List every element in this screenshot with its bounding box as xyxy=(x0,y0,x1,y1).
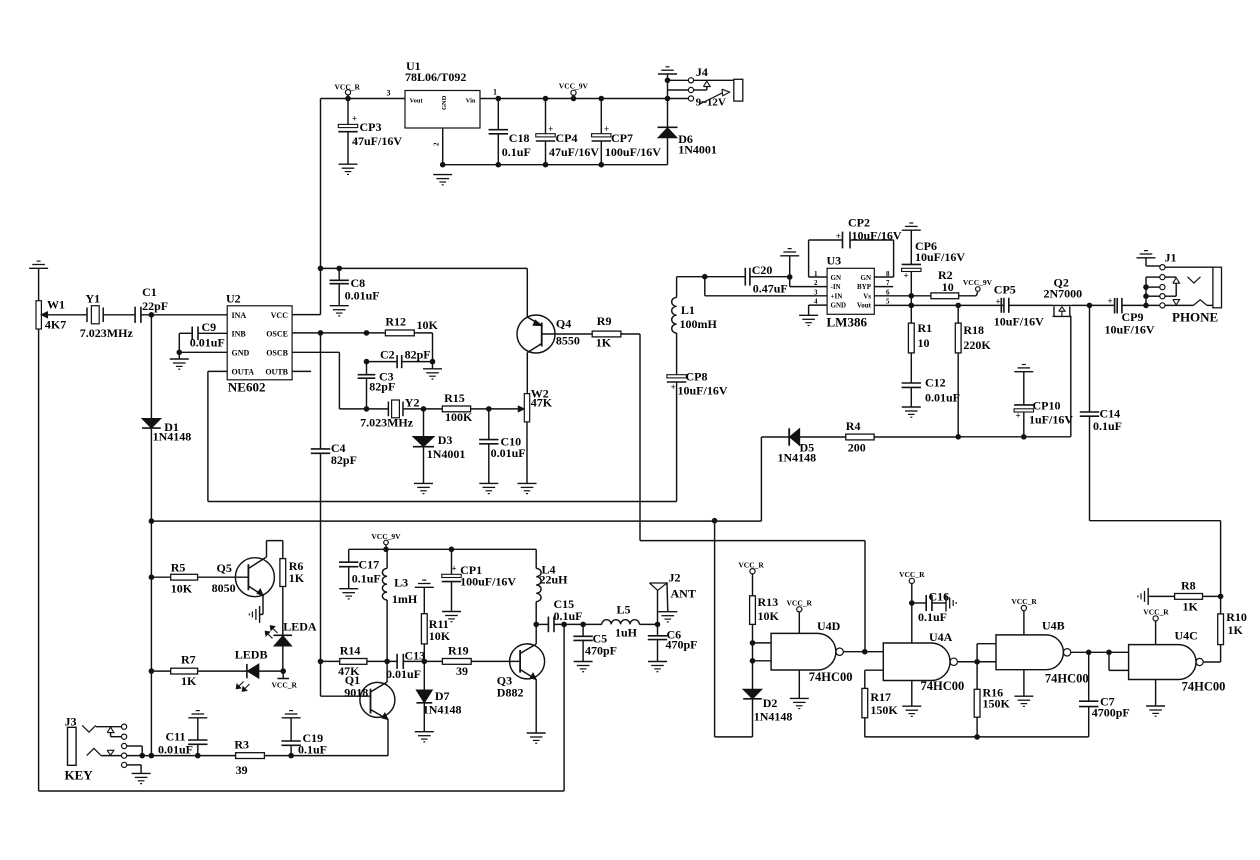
svg-text:1uH: 1uH xyxy=(615,626,638,640)
wire: left bus down to J3 xyxy=(150,521,152,756)
diode D1 1N4148 xyxy=(142,419,161,428)
svg-text:+: + xyxy=(604,124,609,134)
wire: C15 node down to ground rail xyxy=(563,624,565,791)
wire: U2 GND pin xyxy=(179,351,227,353)
capacitor CP4 47uF/16V xyxy=(543,96,549,102)
svg-text:9~12V: 9~12V xyxy=(696,97,726,109)
svg-text:82pF: 82pF xyxy=(405,348,431,362)
svg-text:R10: R10 xyxy=(1226,610,1247,624)
op-amp U2 NE602 mixer box xyxy=(227,306,292,380)
resistor R17 150K xyxy=(862,688,868,717)
svg-text:C12: C12 xyxy=(925,376,946,390)
logic gate U4A 74HC00 xyxy=(883,643,950,681)
svg-text:74HC00: 74HC00 xyxy=(1045,672,1089,686)
svg-text:R8: R8 xyxy=(1181,579,1196,593)
wire: U2 OSCB row to Y2 xyxy=(292,351,339,353)
svg-text:C20: C20 xyxy=(752,263,773,277)
ground for D7 xyxy=(415,731,434,733)
inductor L1 100mH xyxy=(672,297,677,333)
resistor R6 1K xyxy=(282,541,284,559)
svg-text:R14: R14 xyxy=(340,644,361,658)
svg-text:D3: D3 xyxy=(438,433,453,447)
svg-text:OUTA: OUTA xyxy=(232,367,255,376)
capacitor C2 82pF xyxy=(367,361,398,363)
wire: U2 OSCE row xyxy=(292,332,385,334)
ground for J3 xyxy=(132,772,151,774)
svg-text:1: 1 xyxy=(493,88,497,97)
crystal Y2 7.023MHz xyxy=(387,402,389,417)
resistor R4 200 xyxy=(846,434,874,440)
inductor L4 22uH xyxy=(535,549,537,568)
svg-text:150K: 150K xyxy=(983,697,1011,711)
svg-text:0.01uF: 0.01uF xyxy=(190,336,225,350)
svg-text:470pF: 470pF xyxy=(585,644,617,658)
svg-text:D882: D882 xyxy=(497,686,524,700)
wire: OSCE vertical to C4 and TX driver xyxy=(320,333,322,449)
svg-text:0.1uF: 0.1uF xyxy=(502,145,531,159)
svg-text:U4B: U4B xyxy=(1042,619,1065,633)
svg-text:R5: R5 xyxy=(171,561,186,575)
svg-text:L5: L5 xyxy=(617,603,631,617)
capacitor C15 0.1uF xyxy=(536,623,548,625)
svg-text:J4: J4 xyxy=(696,65,708,79)
op-amp U1 78L06/T092 regulator box xyxy=(405,91,480,129)
node: VCC_9V terminal on rail xyxy=(571,90,576,95)
svg-text:0.01uF: 0.01uF xyxy=(158,743,193,757)
svg-text:7.023MHz: 7.023MHz xyxy=(80,326,134,340)
wire: R15 to W2 wiper xyxy=(471,408,519,410)
svg-text:1N4001: 1N4001 xyxy=(427,447,466,461)
diode D7 1N4148 xyxy=(423,661,425,690)
svg-text:CP5: CP5 xyxy=(994,283,1016,297)
resistor R19 39 xyxy=(442,659,471,665)
svg-text:0.01uF: 0.01uF xyxy=(386,667,421,681)
svg-text:4K7: 4K7 xyxy=(45,318,66,332)
wire: vertical D1 branch line xyxy=(150,315,152,419)
svg-text:10uF/16V: 10uF/16V xyxy=(678,384,728,398)
svg-text:L3: L3 xyxy=(394,576,408,590)
svg-text:+: + xyxy=(452,564,457,574)
op-amp U3 LM386 box xyxy=(827,268,874,314)
svg-text:LEDB: LEDB xyxy=(235,648,268,662)
wire: J3 sleeve to ground xyxy=(127,764,141,766)
svg-text:CP8: CP8 xyxy=(686,370,708,384)
svg-text:R1: R1 xyxy=(918,321,933,335)
svg-text:10: 10 xyxy=(942,280,954,294)
wire: U4D output to U4A xyxy=(843,651,883,653)
svg-text:+: + xyxy=(352,114,357,124)
transistor Q4 8550 xyxy=(517,315,555,353)
svg-text:R18: R18 xyxy=(963,323,984,337)
svg-text:U2: U2 xyxy=(226,292,241,306)
svg-text:10uF/16V: 10uF/16V xyxy=(994,315,1044,329)
svg-text:BYP: BYP xyxy=(857,283,872,291)
element: J3 key contact lower xyxy=(87,748,101,755)
capacitor CP2 10uF/16V bypass loop xyxy=(809,276,828,278)
svg-text:10K: 10K xyxy=(429,629,451,643)
wire: U2 OUTA to CP8/L1 xyxy=(208,370,227,372)
svg-text:10K: 10K xyxy=(758,609,780,623)
capacitor C14 0.1uF xyxy=(1089,305,1091,412)
wire: U3 pin6 Vs row with R2 xyxy=(874,295,931,297)
svg-text:CP10: CP10 xyxy=(1033,399,1061,413)
svg-text:U4A: U4A xyxy=(929,630,953,644)
svg-text:U4C: U4C xyxy=(1175,629,1198,643)
svg-text:47uF/16V: 47uF/16V xyxy=(549,145,599,159)
svg-text:Q5: Q5 xyxy=(217,561,232,575)
svg-text:GND: GND xyxy=(831,302,847,310)
svg-text:0.01uF: 0.01uF xyxy=(345,289,380,303)
wire: bottom ground rail of keyer section xyxy=(39,790,565,792)
svg-text:1K: 1K xyxy=(1183,600,1199,614)
svg-text:74HC00: 74HC00 xyxy=(1182,680,1226,694)
ground for U2/C9 xyxy=(178,352,180,359)
wire: mixer output node to R14 xyxy=(318,659,324,665)
ground for U3 xyxy=(799,314,818,316)
svg-text:J3: J3 xyxy=(65,715,77,729)
resistor R15 100K xyxy=(442,406,470,412)
transistor Q5 8050 xyxy=(235,558,274,597)
svg-text:1K: 1K xyxy=(289,571,305,585)
wire: lower power return rail xyxy=(443,164,668,166)
svg-text:+: + xyxy=(904,271,909,281)
ground above U3 -IN xyxy=(780,255,799,257)
svg-text:0.1uF: 0.1uF xyxy=(1093,419,1122,433)
capacitor C4 82pF xyxy=(311,448,330,450)
transistor Q1 9018 xyxy=(360,682,395,717)
capacitor CP9 10uF/16V xyxy=(1114,298,1116,313)
element: J3 tip arrow xyxy=(107,727,114,732)
svg-text:C17: C17 xyxy=(359,558,380,572)
wire: U3 pin4 GND xyxy=(809,304,828,306)
wire: U1 GND pin to ground rail xyxy=(442,128,444,165)
wire: U4C output to R10 xyxy=(1203,661,1220,663)
element: J1 jack body xyxy=(1213,267,1222,308)
svg-text:7.023MHz: 7.023MHz xyxy=(360,416,414,430)
wire: +IN branch to U3 pin3 xyxy=(704,277,706,296)
svg-text:82pF: 82pF xyxy=(331,453,357,467)
svg-text:GND: GND xyxy=(441,95,448,110)
wire: Y2 to R15 xyxy=(403,408,442,410)
svg-text:OSCE: OSCE xyxy=(266,329,288,338)
svg-text:VCC: VCC xyxy=(271,311,289,320)
svg-text:C11: C11 xyxy=(166,730,186,744)
wire: J1 tip contact arrow xyxy=(1165,276,1176,278)
svg-text:1uF/16V: 1uF/16V xyxy=(1029,413,1073,427)
LED LEDA xyxy=(274,634,293,636)
resistor R3 39 xyxy=(236,753,265,759)
svg-text:J1: J1 xyxy=(1165,251,1177,265)
svg-text:0.01uF: 0.01uF xyxy=(491,446,526,460)
logic gate U4C 74HC00 xyxy=(1129,645,1196,680)
svg-text:D7: D7 xyxy=(435,689,450,703)
capacitor C17 0.1uF xyxy=(348,549,350,562)
wire: D5 node down to logic xyxy=(712,518,718,524)
svg-text:VCC_9V: VCC_9V xyxy=(963,278,993,287)
capacitor C19 0.1uF xyxy=(282,717,301,719)
svg-text:10K: 10K xyxy=(417,318,439,332)
wire: U4B output to U4C xyxy=(1071,651,1129,653)
logic gate U4D 74HC00 xyxy=(753,642,772,644)
transistor Q2 2N7000 mosfet xyxy=(1053,304,1071,306)
resistor R9 1K xyxy=(592,331,621,337)
svg-text:R12: R12 xyxy=(385,315,406,329)
svg-text:78L06/T092: 78L06/T092 xyxy=(405,70,466,84)
svg-text:J2: J2 xyxy=(669,571,681,585)
svg-text:LEDA: LEDA xyxy=(283,620,317,634)
svg-text:+: + xyxy=(548,124,553,134)
ground above W1 xyxy=(29,267,48,269)
svg-text:D2: D2 xyxy=(763,696,778,710)
svg-text:R19: R19 xyxy=(448,644,469,658)
svg-text:C9: C9 xyxy=(202,320,217,334)
svg-text:10: 10 xyxy=(918,336,930,350)
svg-text:GN: GN xyxy=(831,274,842,282)
svg-text:KEY: KEY xyxy=(65,768,94,783)
svg-text:+: + xyxy=(1108,296,1113,306)
ground for U4D xyxy=(798,670,800,698)
capacitor C5 470pF xyxy=(580,622,586,628)
svg-text:+: + xyxy=(996,297,1001,307)
wire: U2 VCC pin up to C8 node xyxy=(292,314,320,316)
element: LEDB emission arrows xyxy=(238,682,244,688)
svg-text:U4D: U4D xyxy=(817,619,841,633)
wire: key line to Q1 emitter xyxy=(291,755,388,757)
svg-text:VCC_R: VCC_R xyxy=(335,83,361,92)
ground for U4B xyxy=(1023,670,1025,697)
wire: CP6 stem through Vs row to Vout row xyxy=(910,296,912,306)
inductor L3 1mH xyxy=(386,549,388,568)
svg-text:22pF: 22pF xyxy=(142,299,168,313)
wire: C20 node to U3 pin2 xyxy=(789,277,791,287)
svg-text:1N4148: 1N4148 xyxy=(153,430,192,444)
diode D2 1N4148 xyxy=(743,689,762,698)
element: J3 key contact upper xyxy=(82,725,96,732)
svg-text:2: 2 xyxy=(814,279,818,287)
node: VCC_R bar below LEDs xyxy=(282,671,284,678)
svg-text:VCC_R: VCC_R xyxy=(899,570,925,579)
svg-text:VCC_9V: VCC_9V xyxy=(559,82,589,91)
svg-text:L1: L1 xyxy=(681,303,695,317)
svg-text:2: 2 xyxy=(433,142,441,146)
svg-text:C1: C1 xyxy=(142,285,157,299)
svg-text:1K: 1K xyxy=(596,336,612,350)
wire: J1 sleeve to body xyxy=(1165,266,1213,268)
svg-text:22uH: 22uH xyxy=(540,573,569,587)
svg-text:-IN: -IN xyxy=(831,283,841,291)
svg-text:100mH: 100mH xyxy=(680,317,718,331)
svg-text:9018: 9018 xyxy=(344,686,368,700)
svg-text:39: 39 xyxy=(456,664,468,678)
logic gate U4B 74HC00 xyxy=(996,635,1063,670)
wire: C14 to R8/R10 node xyxy=(1090,520,1221,522)
svg-text:8550: 8550 xyxy=(556,334,580,348)
svg-text:R3: R3 xyxy=(234,738,249,752)
ground for C5 xyxy=(574,661,593,663)
svg-text:100uF/16V: 100uF/16V xyxy=(460,575,516,589)
ground for U1 xyxy=(433,174,452,176)
wire: U4A output to U4B inputs xyxy=(957,661,996,663)
potentiometer W1 4K7 xyxy=(36,301,41,329)
wire: R12 right to C2 ground branch xyxy=(414,332,432,334)
svg-text:150K: 150K xyxy=(870,703,898,717)
svg-text:NE602: NE602 xyxy=(228,380,266,395)
svg-text:VCC_R: VCC_R xyxy=(1143,608,1169,617)
wire: Y1 to C1 xyxy=(103,314,135,316)
ground for U4A xyxy=(911,681,913,707)
svg-text:INA: INA xyxy=(232,311,247,320)
svg-text:100K: 100K xyxy=(445,410,473,424)
svg-text:74HC00: 74HC00 xyxy=(809,670,853,684)
wire: U3 pin7 stub xyxy=(874,286,893,288)
ground for D3 xyxy=(414,482,433,484)
svg-text:VCC_R: VCC_R xyxy=(272,681,298,690)
ground for C17 xyxy=(339,588,358,590)
capacitor CP6 10uF/16V xyxy=(902,229,921,231)
svg-text:100uF/16V: 100uF/16V xyxy=(605,145,661,159)
capacitor C8 0.01uF xyxy=(336,266,342,272)
capacitor C16 0.1uF xyxy=(912,602,926,604)
svg-text:2N7000: 2N7000 xyxy=(1044,287,1083,301)
svg-text:R15: R15 xyxy=(444,391,465,405)
resistor R16 150K xyxy=(976,662,978,690)
svg-text:C2: C2 xyxy=(380,348,395,362)
svg-text:ANT: ANT xyxy=(671,587,696,601)
ground for C10 xyxy=(479,482,498,484)
capacitor CP5 10uF/16V xyxy=(1000,298,1002,313)
svg-text:Vs: Vs xyxy=(863,292,871,300)
antenna J2 ANT xyxy=(657,590,659,624)
wire: C8 node rail to Q4 emitter xyxy=(321,267,528,269)
svg-text:0.01uF: 0.01uF xyxy=(925,391,960,405)
svg-text:0.1uF: 0.1uF xyxy=(298,743,327,757)
svg-text:1mH: 1mH xyxy=(392,592,418,606)
wire: Q4 base to R9 xyxy=(542,333,593,335)
capacitor C3 82pF xyxy=(366,362,368,375)
svg-text:GND: GND xyxy=(232,348,250,357)
svg-text:74HC00: 74HC00 xyxy=(921,679,965,693)
svg-text:1N4148: 1N4148 xyxy=(778,451,817,465)
wire: riser from rail down to C8/Q4 node xyxy=(320,99,322,269)
svg-text:1K: 1K xyxy=(1228,623,1244,637)
ground for W2 xyxy=(518,482,537,484)
node: VCC_9V at R2 xyxy=(959,295,977,297)
svg-text:W1: W1 xyxy=(47,298,65,312)
ground for CP3 xyxy=(339,163,358,165)
svg-text:82pF: 82pF xyxy=(369,380,395,394)
ground sideways for R8 xyxy=(1148,595,1174,597)
capacitor C12 0.01uF xyxy=(910,353,912,383)
capacitor CP10 1uF/16V xyxy=(1014,371,1033,373)
wire: R9 to TX keying node xyxy=(621,333,640,335)
transistor Q3 D882 xyxy=(510,644,545,679)
potentiometer W2 47K xyxy=(524,394,529,422)
ground for C2/R12 xyxy=(432,362,434,369)
resistor R1 10 xyxy=(910,305,912,323)
svg-text:+: + xyxy=(836,231,841,241)
capacitor C13 0.01uF xyxy=(396,654,398,669)
diode D3 1N4001 xyxy=(423,409,425,437)
ground sideways for C16 xyxy=(945,595,947,612)
resistor R5 10K xyxy=(149,574,155,580)
ground sideways for Q5 emitter xyxy=(260,613,263,615)
wire: J3 ring loop xyxy=(127,745,143,747)
ground for CP1 xyxy=(442,611,461,613)
inductor L5 1uH xyxy=(583,623,602,625)
resistor R7 1K xyxy=(149,668,155,674)
connector J1 PHONE jack xyxy=(1137,257,1156,259)
svg-text:CP7: CP7 xyxy=(611,131,633,145)
wire: U4A lower input from R17 xyxy=(865,669,884,671)
resistor R10 1K xyxy=(1218,614,1224,645)
svg-text:1N4148: 1N4148 xyxy=(754,710,793,724)
svg-text:0.47uF: 0.47uF xyxy=(753,282,788,296)
capacitor CP7 100uF/16V xyxy=(599,96,605,102)
svg-text:470pF: 470pF xyxy=(666,638,698,652)
ground for C6 xyxy=(648,661,667,663)
svg-text:0.1uF: 0.1uF xyxy=(554,609,583,623)
svg-text:1N4148: 1N4148 xyxy=(423,703,462,717)
svg-text:Y2: Y2 xyxy=(405,396,420,410)
svg-text:OUTB: OUTB xyxy=(265,367,288,376)
wire: L1 top to C20 xyxy=(677,276,746,278)
capacitor C9 0.01uF xyxy=(198,332,227,334)
svg-text:+IN: +IN xyxy=(831,292,843,300)
wire: rail from U1 pin1 to J4 pin xyxy=(480,98,688,100)
svg-text:OSCB: OSCB xyxy=(266,348,288,357)
resistor R14 47K xyxy=(340,659,367,665)
svg-text:C18: C18 xyxy=(509,131,530,145)
node: VCC_R terminal on rail xyxy=(345,90,350,95)
element: LEDA emission arrows xyxy=(272,627,278,633)
element: J1 headphone contact lower xyxy=(1165,304,1193,306)
svg-text:R7: R7 xyxy=(181,653,196,667)
svg-text:220K: 220K xyxy=(963,338,991,352)
wire: J1 left bus xyxy=(1146,276,1160,278)
wire: long keying line to D5 xyxy=(151,520,761,522)
svg-text:CP4: CP4 xyxy=(556,131,578,145)
svg-text:R4: R4 xyxy=(846,419,861,433)
ground above R11 xyxy=(415,586,434,588)
wire: W2 top / Q4 collector xyxy=(526,353,528,394)
svg-text:Y1: Y1 xyxy=(86,292,101,306)
resistor R8 1K xyxy=(1175,594,1203,600)
svg-text:PHONE: PHONE xyxy=(1172,310,1218,325)
svg-text:VCC_R: VCC_R xyxy=(738,561,764,570)
svg-text:VCC_R: VCC_R xyxy=(1011,597,1037,606)
ground for Q3 xyxy=(527,732,546,734)
resistor R13 10K xyxy=(750,596,756,625)
wire: W1 wiper to Y1 xyxy=(44,314,87,316)
wire: U3 pin5 Vout row xyxy=(874,304,1004,306)
svg-text:47uF/16V: 47uF/16V xyxy=(352,134,402,148)
svg-text:R9: R9 xyxy=(597,314,612,328)
svg-text:U3: U3 xyxy=(827,254,842,268)
wire: W1 top lead xyxy=(38,268,40,300)
ground for C8 xyxy=(330,305,349,307)
element: J1 headphone contact upper xyxy=(1188,277,1201,283)
svg-text:GN: GN xyxy=(861,274,872,282)
svg-text:10uF/16V: 10uF/16V xyxy=(1105,323,1155,337)
svg-text:Vout: Vout xyxy=(410,98,424,105)
wire: VCC stem to U4A xyxy=(911,603,913,643)
svg-text:10uF/16V: 10uF/16V xyxy=(915,250,965,264)
svg-text:R13: R13 xyxy=(758,595,779,609)
svg-text:CP2: CP2 xyxy=(848,216,870,230)
svg-text:4700pF: 4700pF xyxy=(1092,706,1130,720)
capacitor C7 4700pF xyxy=(1088,652,1090,701)
svg-text:Vin: Vin xyxy=(466,98,476,105)
